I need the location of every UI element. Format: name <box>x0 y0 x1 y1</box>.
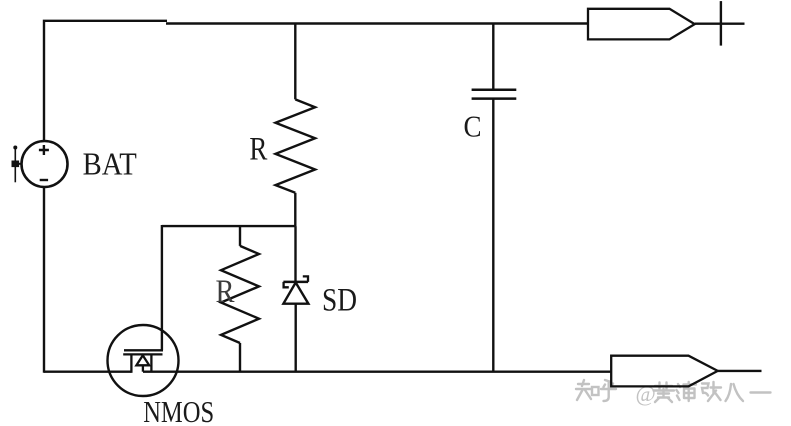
svg-text:R: R <box>249 132 267 168</box>
八 <box>726 384 744 401</box>
wire bottom rail left <box>44 371 131 373</box>
wire top rail left segment <box>44 21 167 142</box>
svg-text:BAT: BAT <box>83 146 138 182</box>
浦 <box>677 382 697 401</box>
port arrow top (output) <box>588 9 695 40</box>
知 <box>576 380 592 400</box>
一 <box>751 391 771 393</box>
乎 <box>601 380 616 401</box>
wire bottom rail right <box>143 371 611 373</box>
wire box top <box>162 225 296 227</box>
battery plus sign <box>39 145 49 155</box>
svg-text:C: C <box>464 109 482 144</box>
probe marker <box>12 146 23 183</box>
resistor R2 <box>221 226 259 372</box>
battery minus sign <box>40 179 48 181</box>
transistor Q1 NMOS circle <box>108 325 179 396</box>
wire box left / NMOS drain <box>161 225 163 350</box>
wire top rail right segment <box>166 22 588 24</box>
wire port top to pin <box>695 23 745 25</box>
port arrow bottom (output) <box>611 356 718 387</box>
wire left rail lower <box>43 187 45 373</box>
watermark 知乎 @黄浦张八一 <box>576 380 771 406</box>
resistor R1 top <box>276 24 316 227</box>
battery BAT <box>22 141 68 187</box>
wire port bottom stub <box>718 370 762 372</box>
张 <box>702 382 721 401</box>
transistor Q1 internals <box>123 350 163 373</box>
pin cross marker <box>720 1 722 46</box>
svg-text:SD: SD <box>322 283 357 319</box>
黄 <box>654 383 675 403</box>
capacitor C <box>472 24 517 372</box>
zener diode SD <box>283 226 308 372</box>
svg-text:@: @ <box>636 381 656 406</box>
svg-text:R: R <box>216 274 235 310</box>
svg-text:NMOS: NMOS <box>143 394 214 426</box>
